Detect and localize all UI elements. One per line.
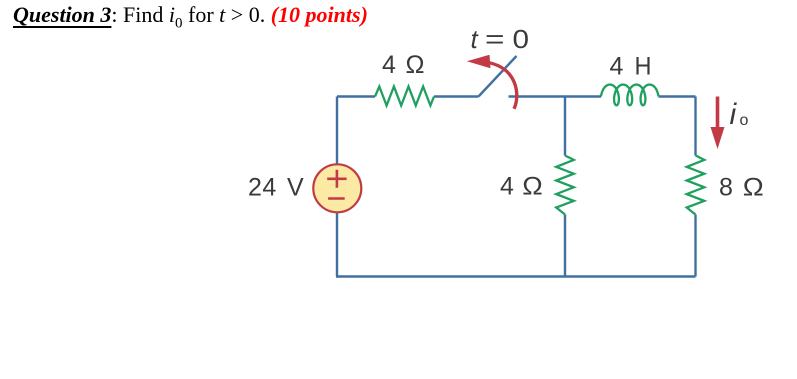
svg-text:4: 4 <box>610 53 624 81</box>
svg-text:4: 4 <box>500 173 514 201</box>
switch blade <box>479 56 517 97</box>
svg-text:Ω: Ω <box>743 174 764 202</box>
svg-text:Ω: Ω <box>522 173 543 201</box>
title text <box>13 2 368 32</box>
wire top-left segment <box>337 95 375 97</box>
wire left branch upper <box>336 97 338 165</box>
svg-text:=: = <box>485 24 505 54</box>
wire middle branch lower <box>564 215 566 277</box>
resistor R3 8ohm vertical <box>687 156 705 215</box>
wire switch to node B <box>509 95 602 97</box>
source minus sign <box>328 197 345 200</box>
resistor R1 4ohm horizontal <box>375 87 434 106</box>
svg-text:8: 8 <box>719 174 733 202</box>
current arrow io <box>716 97 720 129</box>
svg-text:Ω: Ω <box>406 51 425 79</box>
svg-text:i: i <box>730 98 738 131</box>
svg-text:V: V <box>287 174 304 202</box>
svg-text:H: H <box>635 53 652 81</box>
wire right branch lower <box>694 215 696 277</box>
resistor R2 4ohm vertical <box>556 156 574 215</box>
inductor L1 4H <box>601 85 659 106</box>
wire right branch upper <box>694 97 696 156</box>
wire middle branch upper <box>564 97 566 156</box>
wire left branch lower <box>336 213 338 277</box>
wire inductor to top-right corner <box>659 95 696 97</box>
svg-text:0: 0 <box>513 24 530 54</box>
svg-text:t: t <box>471 24 480 54</box>
source V1 24V circle <box>313 164 361 212</box>
svg-text:24: 24 <box>248 174 277 202</box>
svg-text:o: o <box>740 112 749 129</box>
wire between R1 and switch <box>434 95 479 97</box>
source plus sign <box>327 170 346 188</box>
switch arrowhead <box>467 55 491 68</box>
svg-text:4: 4 <box>382 51 396 79</box>
wire bottom <box>336 275 696 277</box>
switch arc t=0 <box>488 63 517 109</box>
